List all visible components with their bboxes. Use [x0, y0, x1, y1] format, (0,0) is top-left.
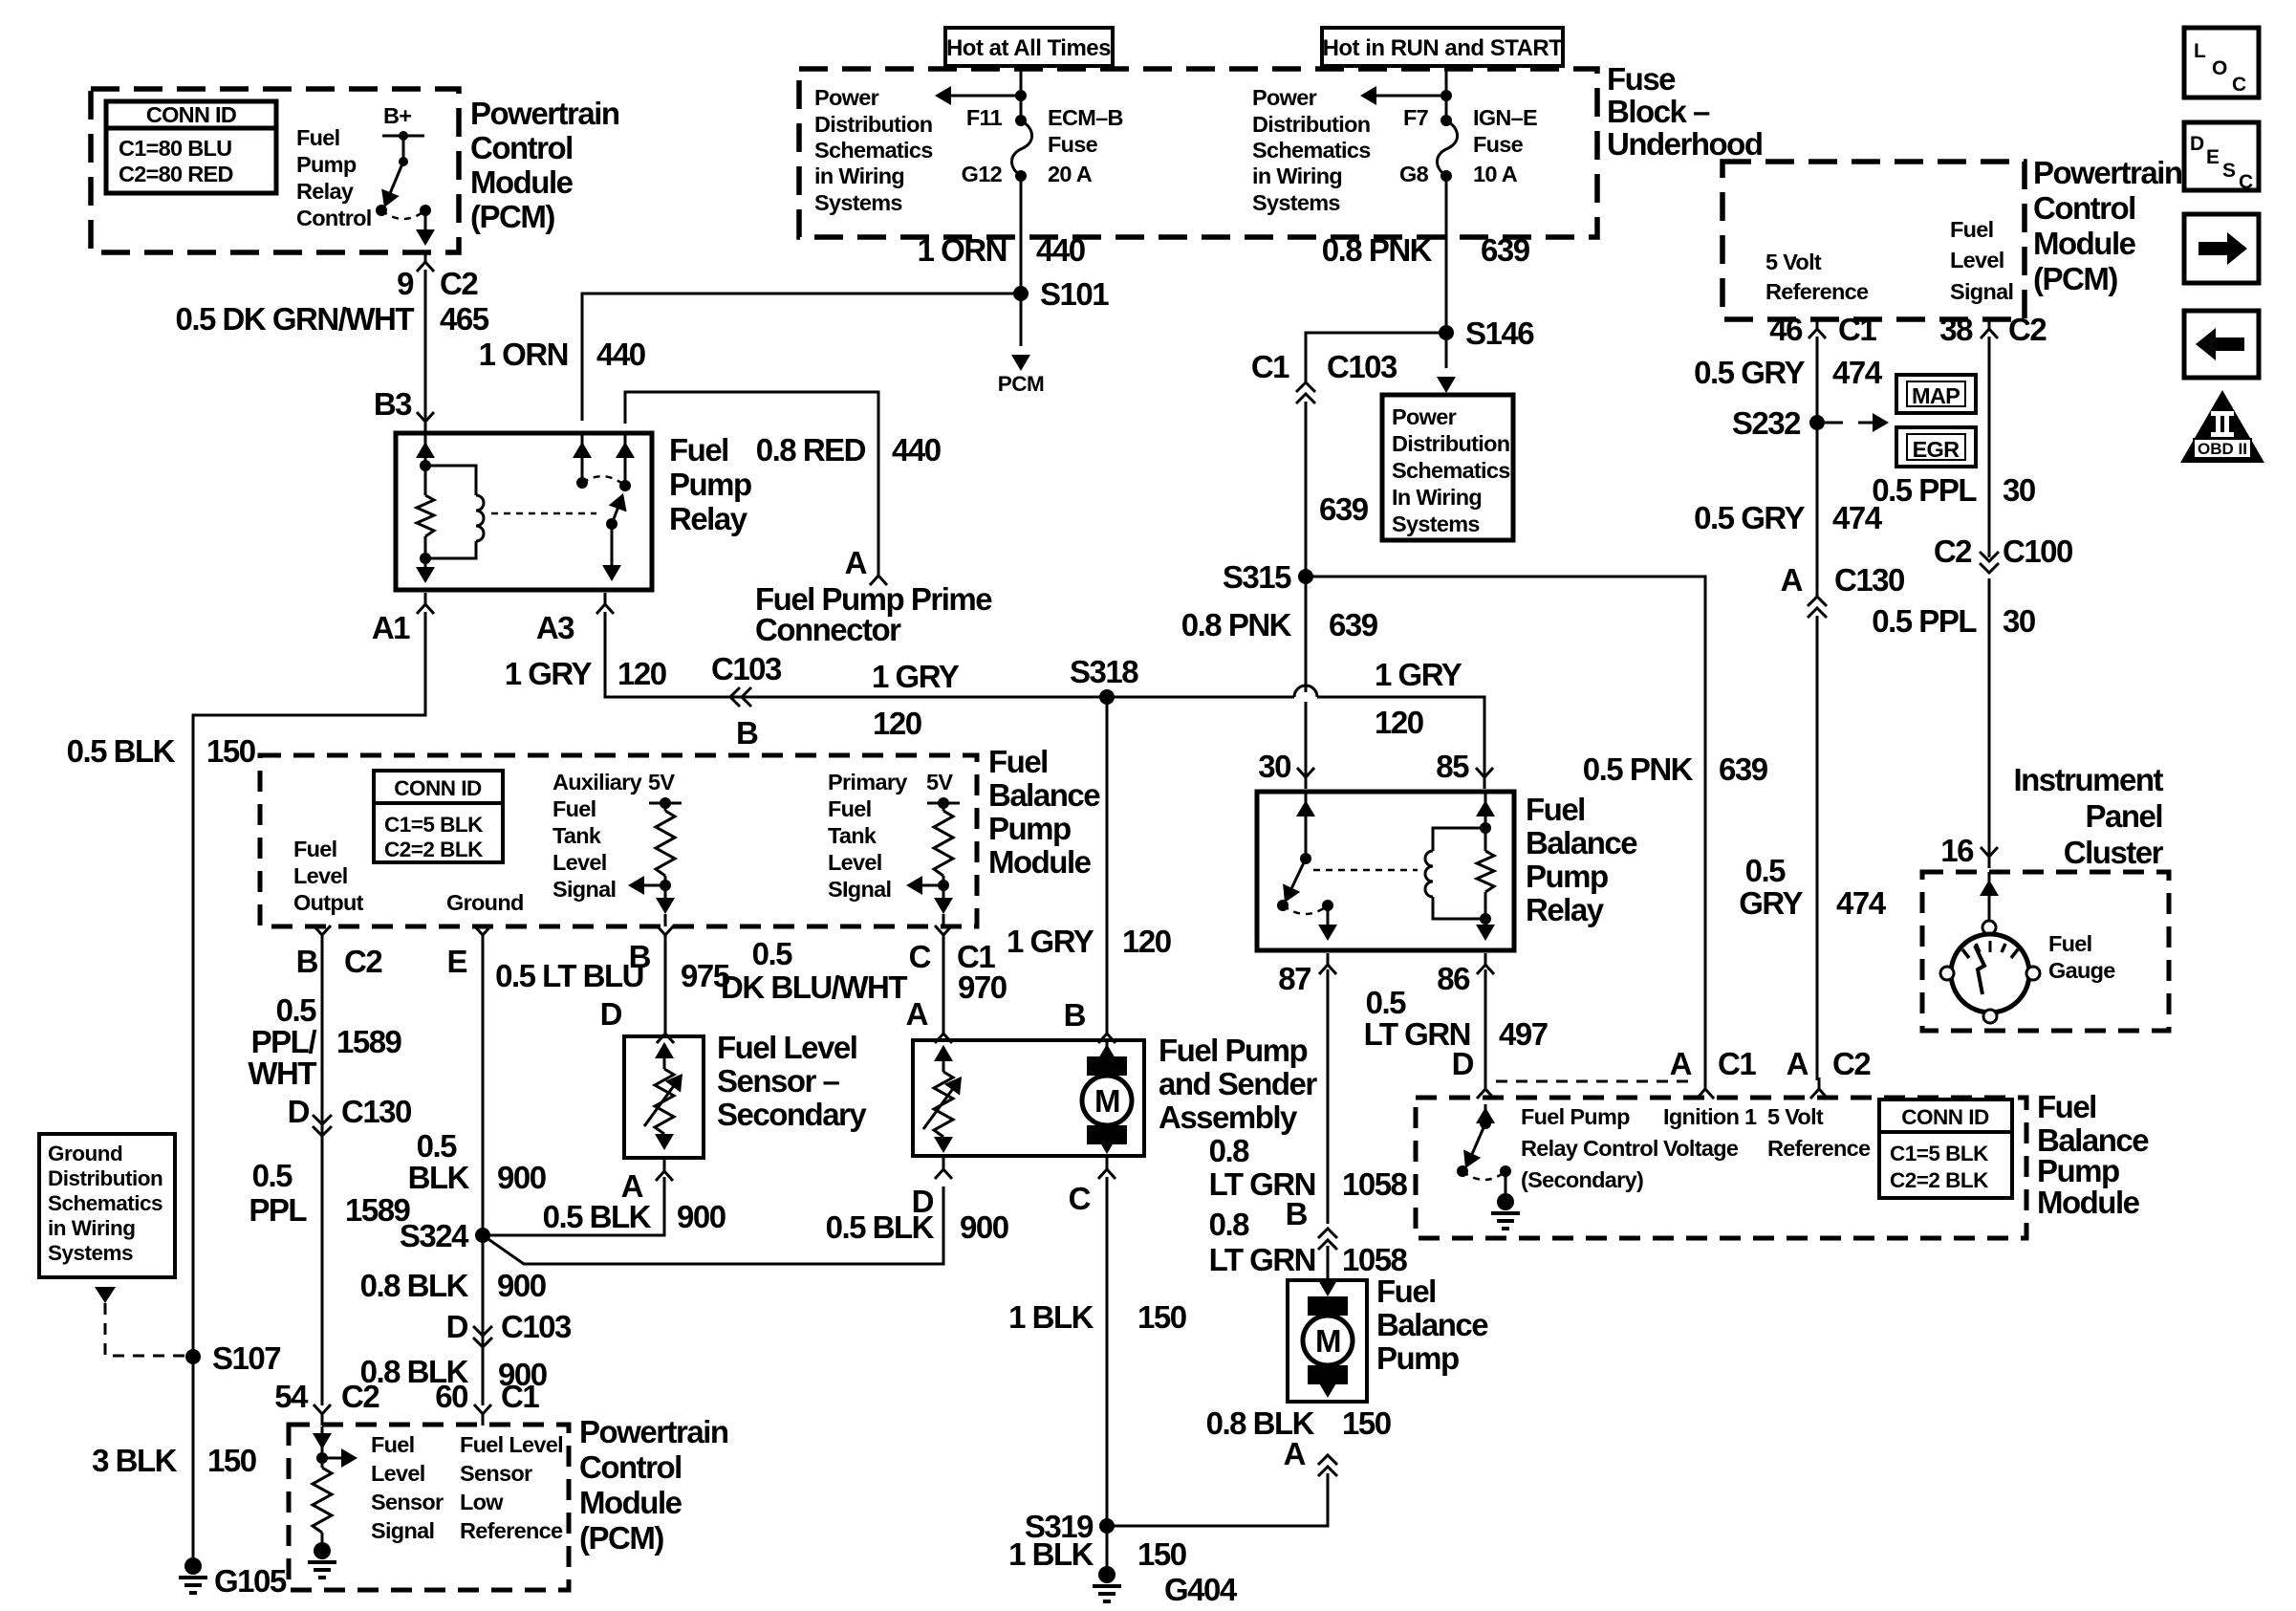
wire 639 down to S315 [1305, 402, 1308, 577]
svg-text:Control: Control [470, 130, 573, 165]
svg-text:A: A [1284, 1436, 1306, 1471]
internal ground (module2) [1491, 1193, 1520, 1229]
svg-text:Fuse: Fuse [1607, 61, 1676, 97]
wire 0.8 RED 440 to prime connector [625, 392, 878, 566]
svg-text:Fuel Level: Fuel Level [717, 1030, 856, 1065]
svg-text:Relay: Relay [669, 501, 748, 536]
svg-text:C: C [1069, 1181, 1091, 1216]
svg-text:D: D [288, 1094, 310, 1129]
svg-text:120: 120 [617, 656, 666, 691]
svg-text:G12: G12 [962, 162, 1003, 186]
dashed coupling line relay 2 [1313, 869, 1418, 872]
svg-text:0.5: 0.5 [417, 1128, 458, 1164]
svg-text:GRY: GRY [1739, 885, 1803, 921]
relay2 switch [1276, 792, 1337, 941]
label: Fuel Level Output [293, 837, 364, 915]
svg-text:Fuel: Fuel [1376, 1274, 1436, 1309]
svg-text:Gauge: Gauge [2048, 958, 2115, 983]
wire GRY 474 down to module2 pin A/C2 [1816, 616, 1819, 1080]
fuel pump relay box [396, 433, 652, 590]
svg-text:474: 474 [1832, 355, 1883, 390]
svg-text:(Secondary): (Secondary) [1521, 1167, 1643, 1192]
svg-text:Systems: Systems [48, 1241, 133, 1265]
svg-text:Ignition 1: Ignition 1 [1663, 1104, 1757, 1129]
ground G404 [1093, 1566, 1121, 1601]
svg-text:in Wiring: in Wiring [814, 163, 904, 188]
svg-text:16: 16 [1940, 833, 1974, 868]
svg-text:C1: C1 [1718, 1046, 1756, 1081]
svg-text:0.8 PNK: 0.8 PNK [1181, 607, 1292, 642]
svg-text:Balance: Balance [1526, 825, 1637, 860]
label: Fuel Pump Relay Control [296, 125, 372, 230]
connector D C130 on PPL/WHT wire [313, 1115, 332, 1136]
svg-text:Powertrain: Powertrain [579, 1414, 728, 1449]
svg-text:Reference: Reference [460, 1518, 563, 1543]
node S324 [475, 1228, 490, 1243]
svg-text:0.5: 0.5 [752, 936, 793, 971]
svg-text:in Wiring: in Wiring [48, 1216, 136, 1240]
node S319 [1099, 1518, 1115, 1534]
svg-text:C2: C2 [440, 266, 478, 301]
svg-text:Systems: Systems [1392, 512, 1480, 536]
svg-text:5V: 5V [926, 770, 953, 795]
svg-text:Fuel: Fuel [552, 796, 596, 821]
svg-text:0.5: 0.5 [1745, 853, 1787, 888]
svg-text:Tank: Tank [552, 823, 602, 848]
svg-text:Relay: Relay [1526, 892, 1605, 927]
wire 86 down to module2 pin D (0.5 LT GRN 497) [1484, 969, 1487, 1080]
svg-text:150: 150 [1137, 1299, 1186, 1335]
svg-text:440: 440 [892, 432, 941, 468]
wire from Hot at All Times + node + arrow left [935, 66, 1027, 120]
svg-text:Underhood: Underhood [1607, 126, 1762, 162]
svg-text:5 Volt: 5 Volt [1767, 1104, 1824, 1129]
svg-text:Cluster: Cluster [2064, 835, 2164, 870]
svg-text:PPL: PPL [249, 1192, 307, 1228]
wire 440 ORN down to S101 [1020, 176, 1023, 294]
module pin B (aux signal) [657, 925, 674, 947]
svg-text:0.8 BLK: 0.8 BLK [1206, 1405, 1315, 1441]
node S232 [1809, 415, 1825, 430]
svg-text:Module: Module [470, 164, 574, 200]
relay switch (S101 feed, RED feed, to A3) [573, 433, 635, 581]
svg-text:87: 87 [1278, 961, 1310, 996]
wire 474 GRY down right side to module2 pin A/C2 [1810, 1078, 1828, 1099]
svg-text:C: C [909, 939, 931, 974]
svg-text:S318: S318 [1070, 654, 1138, 689]
svg-text:120: 120 [1375, 705, 1423, 740]
svg-text:G404: G404 [1164, 1572, 1238, 1607]
svg-text:1 ORN: 1 ORN [479, 337, 568, 372]
dashed arrow S232 to MAP/EGR [1825, 413, 1889, 432]
variable resistor (primary sensor) [923, 1045, 969, 1153]
svg-text:Schematics: Schematics [814, 138, 933, 163]
svg-text:30: 30 [2003, 603, 2035, 639]
svg-text:C103: C103 [711, 651, 782, 686]
svg-text:0.8 RED: 0.8 RED [756, 432, 866, 468]
svg-text:Schematics: Schematics [1252, 138, 1371, 163]
svg-text:A: A [845, 545, 867, 580]
svg-text:Assembly: Assembly [1159, 1099, 1298, 1135]
svg-text:C2: C2 [1832, 1046, 1871, 1081]
svg-text:0.8: 0.8 [1209, 1207, 1250, 1242]
wire S315/639 down right side to module2 pin A/C1 [1306, 577, 1705, 1080]
pin A yoke below secondary sensor [656, 1160, 673, 1181]
svg-text:A1: A1 [372, 610, 410, 645]
svg-text:and Sender: and Sender [1159, 1066, 1317, 1101]
svg-text:BLK: BLK [408, 1160, 470, 1195]
pin A3 yoke [596, 593, 614, 614]
svg-text:440: 440 [1036, 232, 1085, 268]
connector D C103 on BLK wire [473, 1326, 492, 1347]
svg-text:A: A [1670, 1046, 1692, 1081]
svg-text:Pump: Pump [296, 152, 357, 177]
svg-text:Level: Level [293, 863, 348, 888]
svg-text:Powertrain: Powertrain [470, 96, 619, 131]
svg-text:Signal: Signal [552, 877, 616, 902]
CONN ID table (module2) [1879, 1099, 2012, 1198]
right arrow icon [2184, 214, 2259, 283]
svg-text:(PCM): (PCM) [579, 1520, 663, 1556]
arrow S146 down into power distribution box [1437, 333, 1456, 393]
module pin B/C2 (fuel level output) [314, 925, 331, 947]
DESC icon [2184, 122, 2259, 193]
pin 46 C1 yoke [1809, 317, 1826, 338]
svg-text:120: 120 [1122, 924, 1171, 959]
svg-text:Schematics: Schematics [1392, 458, 1510, 483]
svg-text:970: 970 [958, 969, 1007, 1005]
svg-text:0.5 GRY: 0.5 GRY [1694, 355, 1805, 390]
svg-text:Level: Level [1950, 248, 2004, 272]
dashed link between D pin and A/C1 pin [1496, 1080, 1692, 1083]
MAP box [1896, 375, 1976, 413]
arrow to PCM [998, 294, 1045, 396]
svg-text:Fuel Level: Fuel Level [460, 1432, 563, 1457]
wire S324 to fuel level sensor secondary pin A [483, 1177, 664, 1235]
left arrow icon [2184, 311, 2259, 378]
svg-text:0.5 GRY: 0.5 GRY [1694, 500, 1805, 535]
svg-text:S324: S324 [400, 1218, 469, 1253]
connector C103 B (inline on wire) [730, 687, 751, 707]
svg-text:B: B [1286, 1196, 1308, 1231]
svg-text:5 Volt: 5 Volt [1765, 250, 1822, 274]
labels inside bottom PCM [371, 1432, 444, 1543]
svg-text:C1: C1 [501, 1379, 539, 1414]
svg-text:150: 150 [206, 733, 255, 769]
svg-text:0.5 PPL: 0.5 PPL [1872, 603, 1977, 639]
svg-text:C: C [2239, 171, 2253, 193]
svg-text:1 GRY: 1 GRY [1375, 657, 1462, 692]
svg-text:OBD II: OBD II [2198, 440, 2247, 458]
svg-text:in Wiring: in Wiring [1252, 163, 1342, 188]
svg-text:S: S [2222, 160, 2236, 182]
node S101 [1013, 286, 1029, 301]
svg-text:Module: Module [2033, 226, 2136, 261]
svg-text:Fuel: Fuel [296, 125, 340, 150]
wire C down to S319 (1 BLK 150) [1106, 1177, 1109, 1566]
svg-text:O: O [2212, 57, 2227, 79]
svg-text:0.5: 0.5 [276, 992, 317, 1028]
svg-text:Fuel: Fuel [1526, 792, 1585, 827]
wire S324 diagonal to pump assembly pin D [483, 1186, 943, 1264]
svg-text:S315: S315 [1223, 559, 1291, 595]
connector C1 C103 (inline) [1296, 382, 1315, 403]
svg-text:CONN ID: CONN ID [1901, 1105, 1989, 1129]
svg-text:60: 60 [435, 1379, 467, 1414]
svg-text:D: D [1452, 1046, 1474, 1081]
svg-text:C1=5 BLK: C1=5 BLK [384, 813, 484, 837]
wire S319 right to fuel balance pump pin A [1107, 1473, 1328, 1526]
triangle arrow below box [95, 1287, 116, 1303]
svg-text:Systems: Systems [814, 190, 902, 215]
svg-text:Pump: Pump [1526, 859, 1608, 894]
svg-text:85: 85 [1436, 749, 1469, 784]
wire 87 down to fuel balance pump (0.8 LT GRN 1058) [1327, 969, 1330, 1224]
svg-text:150: 150 [1137, 1536, 1186, 1572]
wire 0.5 GRY 474 down from 46 C1 [1816, 337, 1819, 597]
svg-text:0.5 DK GRN/WHT: 0.5 DK GRN/WHT [175, 301, 414, 337]
svg-text:Powertrain: Powertrain [2033, 155, 2182, 190]
module pin E (ground) [474, 925, 491, 947]
svg-text:L: L [2194, 40, 2206, 62]
connector A on 1 BLK wire [1318, 1455, 1337, 1476]
svg-text:440: 440 [596, 337, 645, 372]
svg-text:CONN ID: CONN ID [146, 102, 236, 127]
LOC icon [2184, 28, 2259, 98]
svg-text:Sensor –: Sensor – [717, 1063, 840, 1099]
svg-text:Ground: Ground [446, 890, 524, 915]
svg-text:ECM–B: ECM–B [1048, 105, 1123, 130]
fuel pump motor [1082, 1040, 1132, 1154]
svg-text:Fuel: Fuel [669, 432, 728, 468]
svg-text:Distribution: Distribution [1392, 431, 1509, 456]
svg-text:LT GRN: LT GRN [1209, 1242, 1315, 1277]
svg-text:E: E [446, 944, 466, 979]
svg-text:Sensor: Sensor [371, 1490, 444, 1514]
wire 0.5 BLK 900 down to S324 [482, 947, 485, 1405]
svg-text:C130: C130 [1834, 562, 1904, 598]
svg-text:C2=2 BLK: C2=2 BLK [1890, 1168, 1989, 1192]
svg-text:Pump: Pump [988, 811, 1071, 846]
svg-text:5V: 5V [648, 770, 675, 795]
svg-text:DK BLU/WHT: DK BLU/WHT [721, 969, 907, 1005]
svg-text:0.8: 0.8 [1209, 1133, 1250, 1168]
wire 465 DK GRN/WHT vertical [424, 270, 427, 421]
svg-text:900: 900 [960, 1209, 1008, 1245]
svg-text:54: 54 [274, 1379, 309, 1414]
svg-text:Power: Power [1392, 404, 1457, 429]
svg-text:Distribution: Distribution [48, 1166, 162, 1190]
svg-text:C1: C1 [1838, 312, 1876, 347]
pin 38 C2 yoke [1981, 317, 1998, 338]
svg-text:EGR: EGR [1913, 437, 1960, 462]
svg-text:A: A [1781, 562, 1803, 598]
svg-text:0.5 LT BLU: 0.5 LT BLU [495, 958, 643, 993]
svg-text:C100: C100 [2003, 533, 2072, 569]
svg-text:639: 639 [1329, 607, 1378, 642]
svg-text:Block –: Block – [1607, 94, 1710, 129]
power distribution box (middle) [1382, 395, 1513, 540]
svg-text:900: 900 [677, 1199, 726, 1234]
svg-text:D: D [446, 1309, 468, 1344]
svg-text:150: 150 [207, 1443, 256, 1478]
svg-text:G8: G8 [1399, 162, 1429, 186]
svg-text:CONN ID: CONN ID [394, 776, 482, 800]
pin A1 yoke [417, 593, 434, 614]
relay2 coil + resistor [1425, 792, 1495, 941]
svg-text:C103: C103 [1327, 349, 1397, 384]
svg-text:Fuse: Fuse [1048, 132, 1098, 157]
wire 0.5 PPL 30 down from 38 C2 [1988, 337, 1991, 557]
variable resistor (secondary sensor) [644, 1042, 690, 1150]
svg-text:Module: Module [2037, 1185, 2140, 1220]
svg-text:Relay Control: Relay Control [1521, 1136, 1658, 1161]
svg-text:MAP: MAP [1912, 383, 1960, 408]
module pin C/C1 (primary signal) [935, 925, 952, 947]
svg-text:1 ORN: 1 ORN [918, 232, 1007, 268]
svg-text:474: 474 [1836, 885, 1887, 921]
pin 87 yoke [1319, 953, 1336, 974]
svg-text:0.5 BLK: 0.5 BLK [826, 1209, 935, 1245]
wire 0.5 PPL/WHT 1589 down [321, 947, 324, 1405]
wire PPL 30 down to cluster pin 16 [1988, 578, 1991, 856]
fuse block dashed box [799, 69, 1597, 237]
svg-text:30: 30 [1258, 749, 1290, 784]
fuel pump prime connector pin A [870, 564, 887, 585]
switch: fuel pump relay control driver [376, 131, 435, 246]
svg-text:3 BLK: 3 BLK [92, 1443, 178, 1478]
svg-text:C103: C103 [501, 1309, 572, 1344]
svg-text:1 BLK: 1 BLK [1008, 1299, 1094, 1335]
svg-text:Voltage: Voltage [1663, 1136, 1739, 1161]
svg-text:86: 86 [1437, 961, 1470, 996]
svg-text:(PCM): (PCM) [470, 199, 554, 234]
svg-text:20 A: 20 A [1048, 162, 1093, 186]
switch: fuel pump relay control secondary [1457, 1104, 1511, 1193]
fuel gauge [1940, 872, 2040, 1023]
svg-text:46: 46 [1769, 312, 1803, 347]
svg-text:9: 9 [397, 266, 414, 301]
svg-text:C130: C130 [341, 1094, 411, 1129]
svg-text:Level: Level [828, 850, 882, 875]
EGR box [1896, 427, 1976, 467]
svg-text:1 GRY: 1 GRY [505, 656, 593, 691]
svg-text:0.8 PNK: 0.8 PNK [1322, 232, 1433, 268]
pin C yoke below assembly [1098, 1158, 1116, 1179]
CONN ID table (module) [374, 771, 503, 862]
svg-text:Distribution: Distribution [814, 112, 932, 137]
wire A3 down to C103 and S318 (1 GRY 120) [605, 612, 1484, 776]
svg-text:Sensor: Sensor [460, 1461, 532, 1486]
svg-text:Hot at All Times: Hot at All Times [946, 35, 1111, 61]
svg-text:C2: C2 [1934, 533, 1972, 569]
svg-text:Pump: Pump [669, 467, 751, 502]
svg-text:0.5: 0.5 [252, 1158, 293, 1193]
svg-text:120: 120 [873, 706, 921, 741]
wire from Hot in RUN + node + arrow left [1360, 66, 1452, 120]
svg-text:150: 150 [1342, 1405, 1391, 1441]
svg-text:Pump: Pump [1376, 1340, 1459, 1376]
svg-text:A: A [906, 996, 928, 1032]
svg-text:Fuel: Fuel [2037, 1089, 2096, 1124]
svg-text:639: 639 [1481, 232, 1530, 268]
wire S101 to fuel pump relay [582, 294, 1021, 421]
svg-text:S232: S232 [1732, 405, 1801, 441]
ground distribution schematics box [39, 1134, 175, 1277]
svg-text:Level: Level [371, 1461, 425, 1486]
node S146 [1439, 325, 1454, 340]
svg-text:Fuel: Fuel [988, 744, 1048, 779]
svg-text:Relay: Relay [296, 179, 354, 204]
svg-text:Ground: Ground [48, 1142, 122, 1165]
svg-text:Fuel: Fuel [828, 796, 872, 821]
svg-text:C2: C2 [341, 1379, 379, 1414]
svg-text:D: D [600, 996, 622, 1032]
svg-text:(PCM): (PCM) [2033, 261, 2117, 296]
svg-text:Low: Low [460, 1490, 504, 1514]
svg-text:B: B [736, 715, 758, 751]
svg-text:465: 465 [440, 301, 489, 337]
PCM module box (top left) [91, 89, 459, 252]
svg-text:1058: 1058 [1342, 1242, 1408, 1277]
svg-text:Signal: Signal [1950, 279, 2013, 304]
svg-text:0.5 BLK: 0.5 BLK [543, 1199, 652, 1234]
label: power distribution (right col) [1252, 85, 1371, 215]
svg-text:0.5: 0.5 [1366, 985, 1407, 1020]
svg-text:IGN–E: IGN–E [1473, 105, 1537, 130]
svg-text:E: E [2206, 146, 2220, 168]
svg-text:Tank: Tank [828, 823, 877, 848]
svg-text:Fuel: Fuel [2048, 931, 2092, 956]
svg-text:S107: S107 [212, 1340, 280, 1376]
svg-text:A: A [1787, 1046, 1809, 1081]
svg-text:0.5 PNK: 0.5 PNK [1583, 751, 1694, 787]
svg-text:SIgnal: SIgnal [828, 877, 891, 902]
svg-text:639: 639 [1719, 751, 1768, 787]
svg-text:G105: G105 [214, 1563, 287, 1599]
pin D yoke below assembly [935, 1158, 952, 1179]
svg-text:0.5 PPL: 0.5 PPL [1872, 472, 1977, 508]
fuel balance pump motor [1303, 1280, 1353, 1398]
fuse F7 IGN-E 10A [1438, 115, 1458, 182]
ground G105 [179, 1557, 207, 1593]
svg-text:B3: B3 [374, 386, 412, 422]
fuel level sensor signal input [313, 1426, 357, 1542]
svg-text:900: 900 [497, 1268, 546, 1303]
svg-text:S101: S101 [1040, 276, 1109, 312]
svg-text:Balance: Balance [988, 777, 1100, 813]
svg-text:S146: S146 [1465, 316, 1534, 351]
primary fuel tank level sender resistor [828, 770, 907, 902]
svg-text:Systems: Systems [1252, 190, 1340, 215]
svg-text:900: 900 [497, 1160, 546, 1195]
svg-text:C: C [2232, 74, 2246, 96]
svg-text:38: 38 [1939, 312, 1973, 347]
svg-text:Secondary: Secondary [717, 1097, 867, 1132]
svg-text:PCM: PCM [998, 372, 1045, 396]
svg-text:Level: Level [552, 850, 607, 875]
svg-text:C2: C2 [344, 944, 382, 979]
svg-text:Auxiliary: Auxiliary [552, 770, 642, 795]
wire A1 down-left to ground distribution (0.5 BLK 150) [193, 612, 425, 1557]
label: Fuse Block - Underhood [1607, 61, 1762, 162]
svg-text:Panel: Panel [2085, 798, 2162, 834]
svg-text:Schematics: Schematics [48, 1191, 162, 1215]
OBD II icon [2180, 390, 2264, 463]
svg-text:Reference: Reference [1767, 1136, 1871, 1161]
svg-text:Distribution: Distribution [1252, 112, 1370, 137]
svg-text:0.5 BLK: 0.5 BLK [67, 733, 176, 769]
